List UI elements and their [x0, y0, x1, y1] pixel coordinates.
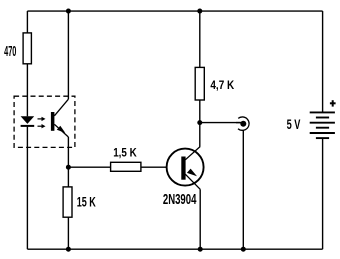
- battery long plate 1: [310, 111, 335, 113]
- transistor Q2 2N3904 circle: [167, 149, 204, 186]
- LED D1 cathode bar: [21, 125, 35, 127]
- transistor Q2 collector lead: [185, 147, 200, 160]
- light arrow 1: [38, 117, 46, 121]
- svg-text:15 K: 15 K: [77, 195, 96, 210]
- wire 4,7K bottom to collector node: [199, 100, 201, 147]
- phototransistor Q1 base bar: [51, 112, 55, 131]
- wire resistor 470 to LED: [26, 64, 28, 117]
- wire into output dot: [236, 122, 243, 124]
- battery short plate 3: [316, 137, 329, 139]
- wire resistor 1,5K to transistor base: [141, 166, 167, 168]
- wire resistor 15K to bottom rail: [67, 217, 69, 249]
- resistor R2 1,5K body: [111, 162, 141, 171]
- wire collector node to output terminal: [200, 122, 241, 124]
- svg-text:470: 470: [4, 44, 16, 60]
- output terminal center dot: [240, 121, 246, 127]
- svg-text:1,5 K: 1,5 K: [113, 147, 137, 159]
- resistor R1 470 body: [23, 33, 31, 64]
- svg-text:2N3904: 2N3904: [163, 191, 197, 208]
- wire bottom rail: [27, 248, 322, 250]
- transistor Q2 base bar: [181, 157, 185, 180]
- battery long plate 2: [310, 122, 335, 124]
- light arrow 2: [38, 124, 46, 128]
- junction bottom rail emitter: [198, 247, 203, 252]
- phototransistor Q1 collector lead: [54, 99, 68, 116]
- wire output terminal to bottom rail: [242, 130, 244, 249]
- wire optocoupler emitter to base node: [67, 137, 69, 187]
- LED D1 triangle: [21, 116, 35, 124]
- wire base node to resistor 1,5K: [68, 166, 110, 168]
- wire left rail upper: [26, 11, 28, 33]
- transistor Q2 emitter arrow: [187, 169, 197, 177]
- resistor R4 4,7K body: [195, 67, 204, 100]
- junction base node: [66, 165, 71, 170]
- label battery plus: [330, 100, 336, 106]
- junction top rail right: [197, 9, 202, 14]
- junction bottom rail 15K: [66, 247, 71, 252]
- wire 4,7K top: [199, 11, 201, 67]
- battery short plate 1: [316, 117, 329, 119]
- transistor Q2 emitter lead: [185, 174, 200, 189]
- wire right rail upper: [322, 11, 324, 112]
- battery short plate 2: [316, 127, 329, 129]
- resistor R3 15K body: [63, 187, 72, 217]
- wire transistor emitter to bottom rail: [199, 189, 201, 249]
- optocoupler U1 dashed box: [14, 96, 75, 147]
- svg-text:5 V: 5 V: [287, 116, 301, 132]
- output terminal ring: [238, 117, 249, 130]
- battery B1 plates: [310, 112, 335, 138]
- wire collector rail optocoupler: [67, 11, 69, 99]
- svg-text:4,7 K: 4,7 K: [210, 80, 234, 92]
- phototransistor Q1 emitter arrow: [57, 126, 66, 133]
- wire right rail lower: [322, 138, 324, 249]
- battery long plate 3: [310, 132, 335, 134]
- junction top rail left: [66, 9, 71, 14]
- junction bottom rail output: [241, 247, 246, 252]
- wire LED cathode to bottom rail: [26, 127, 28, 250]
- phototransistor Q1 emitter lead: [54, 124, 68, 137]
- wire top rail: [27, 10, 322, 12]
- junction collector node: [197, 120, 202, 125]
